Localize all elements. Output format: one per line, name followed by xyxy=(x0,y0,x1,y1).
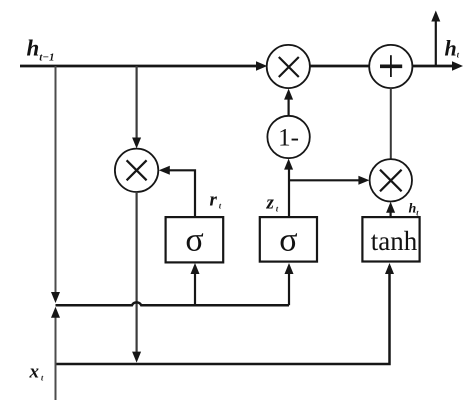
wire h_{t-1} main horizontal left segment xyxy=(20,65,258,68)
svg-text:zt: zt xyxy=(266,193,279,214)
X symbol of right multiplier xyxy=(380,170,402,192)
plus symbol vertical bar xyxy=(390,55,392,77)
circle 1 minus xyxy=(267,116,309,158)
multiplier circle right xyxy=(370,159,412,201)
arrowhead output right xyxy=(452,61,463,70)
arrowhead right into right multiplier xyxy=(358,176,369,185)
arrowhead down into junction xyxy=(51,292,60,303)
junction horizontal wire y=305 xyxy=(56,302,290,305)
X symbol of top multiplier xyxy=(279,57,299,77)
arrowhead output up xyxy=(431,11,440,22)
x_t vertical wire with up arrow into junction xyxy=(55,318,57,401)
svg-text:xt: xt xyxy=(29,362,45,383)
wire down from left multiplier to x_t line xyxy=(136,192,138,353)
arrowhead down into left multiplier xyxy=(132,138,141,149)
wire from reset gate up and left into left multiplier xyxy=(169,170,195,217)
arrowhead into top multiplier xyxy=(256,61,267,70)
wire output branch up xyxy=(435,21,437,66)
wire z branch right to right multiplier xyxy=(289,179,360,181)
wire adder to output h_t xyxy=(412,65,453,68)
svg-text:σ: σ xyxy=(185,222,203,259)
arrowhead up into top multiplier xyxy=(284,89,293,100)
arrowhead up into junction from x_t xyxy=(51,307,60,318)
wire branch down at x=55 from h line xyxy=(55,66,57,292)
svg-text:ht: ht xyxy=(445,36,460,61)
arrowhead up into reset gate xyxy=(191,263,200,274)
svg-text:σ: σ xyxy=(279,222,297,259)
tanh box xyxy=(362,217,419,261)
arrowhead down into x_t line xyxy=(132,352,141,363)
reset gate box sigma r xyxy=(166,217,224,262)
x_t horizontal wire xyxy=(56,266,390,364)
multiplier circle top xyxy=(267,45,310,88)
svg-text:rt: rt xyxy=(210,190,222,211)
update gate box sigma z xyxy=(260,217,317,262)
X symbol of left multiplier xyxy=(127,160,147,180)
wire z up from update gate xyxy=(288,169,290,217)
multiplier circle left xyxy=(115,149,158,192)
wire up into reset gate bottom xyxy=(194,266,196,305)
plus symbol horizontal bar xyxy=(380,65,402,69)
svg-text:tanh: tanh xyxy=(371,226,418,256)
svg-text:1-: 1- xyxy=(278,125,299,152)
arrowhead up into update gate xyxy=(285,263,294,274)
svg-text:ht−1: ht−1 xyxy=(27,36,55,64)
wire up into update gate bottom xyxy=(288,266,290,305)
arrowhead up into right multiplier xyxy=(386,202,395,213)
adder circle xyxy=(369,45,412,88)
wire between top multiplier and adder xyxy=(310,65,369,68)
svg-text:ht: ht xyxy=(409,202,420,218)
wire from 1- circle up to top multiplier xyxy=(288,99,290,116)
arrowhead up into 1- circle xyxy=(284,159,293,170)
arrowhead up into tanh bottom xyxy=(385,263,394,274)
wire from right multiplier up to adder xyxy=(390,88,392,159)
wire from tanh up into right multiplier xyxy=(390,212,392,217)
arrowhead left into left multiplier xyxy=(159,166,170,175)
wire branch down at x=136 into left multiplier xyxy=(136,66,138,138)
